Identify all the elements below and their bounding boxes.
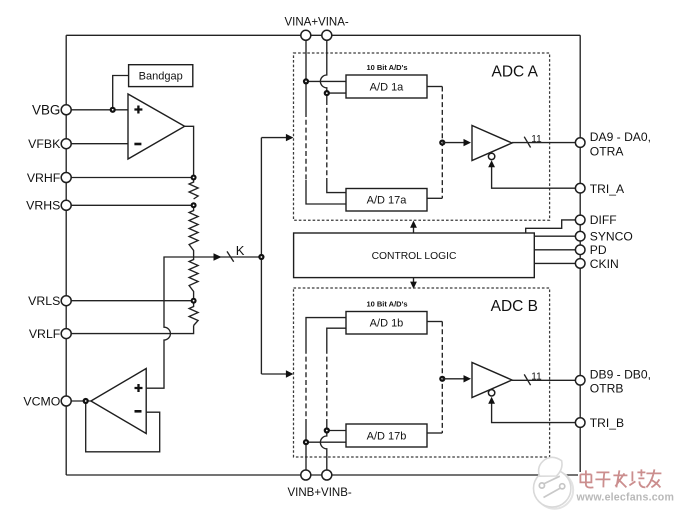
wire VCMO to op-amp U2 output	[66, 400, 91, 402]
wire bus to ADC A	[261, 137, 286, 139]
resistor ladder segment R3	[189, 257, 198, 301]
svg-text:10 Bit A/D's: 10 Bit A/D's	[366, 63, 407, 72]
resistor ladder segment R4	[189, 301, 198, 326]
svg-text:VFBK: VFBK	[28, 137, 61, 151]
wire VRHF	[66, 177, 193, 179]
op-amp U2	[91, 369, 146, 434]
wire VINA+ to A/D 1a	[306, 80, 346, 82]
arrowhead into ADC B	[286, 370, 294, 377]
wire VINB- vertical with hop	[320, 328, 346, 470]
terminal DA9-DA0/OTRA	[575, 138, 585, 148]
block A/D 1a	[346, 75, 427, 98]
svg-text:11: 11	[531, 372, 542, 383]
label K with slash	[227, 243, 245, 262]
svg-text:OTRB: OTRB	[590, 381, 624, 395]
wire right border	[579, 35, 581, 475]
terminal VRLF	[61, 329, 71, 339]
op-amp U1	[128, 94, 185, 159]
wire bandgap to VBG node	[113, 76, 129, 110]
svg-text:DIFF: DIFF	[590, 213, 617, 227]
arrowhead into buffer A	[464, 139, 472, 146]
block A/D 1b	[346, 312, 427, 335]
wire buffer B output (DB bus)	[512, 379, 576, 381]
wire CKIN	[534, 262, 575, 264]
wire VRLF (resistor bottom)	[66, 326, 193, 334]
svg-text:ADC A: ADC A	[491, 64, 538, 81]
svg-text:CKIN: CKIN	[590, 257, 619, 271]
arrowhead K tap	[214, 253, 222, 260]
node VINA- junction dot	[324, 90, 330, 96]
wire SYNCO	[534, 235, 575, 237]
terminal VBG	[61, 105, 71, 115]
wire VINA+ vertical	[306, 40, 346, 204]
arrowhead into buffer B	[464, 375, 472, 382]
terminal VINA+	[301, 30, 311, 40]
arrowhead down to ADC B	[410, 282, 417, 289]
svg-text:10 Bit A/D's: 10 Bit A/D's	[366, 300, 407, 309]
terminal TRI_A	[575, 183, 585, 193]
wire A/D 1a output	[427, 86, 442, 88]
svg-text:OTRA: OTRA	[590, 144, 625, 158]
wire dashed mux bus B	[441, 322, 443, 434]
node K bus junction dot	[258, 254, 264, 260]
svg-text:11: 11	[531, 134, 542, 145]
wire VINA- vertical with hop	[320, 40, 346, 192]
node VRLS tap dot	[191, 298, 197, 304]
terminal VINB-	[322, 470, 332, 480]
terminal DB9-DB0/OTRB	[575, 376, 585, 386]
wire K tap left leg to VCMO buffer + input	[146, 257, 193, 388]
wire top border	[66, 34, 580, 36]
tri-state buffer B	[472, 363, 512, 398]
terminal VRHS	[61, 200, 71, 210]
svg-text:TRI_B: TRI_B	[590, 416, 624, 430]
svg-text:VRLF: VRLF	[29, 327, 61, 341]
wire A/D 1b output	[427, 321, 442, 323]
svg-text:A/D 1b: A/D 1b	[370, 318, 404, 330]
wire buffer A output (DA bus)	[512, 142, 576, 144]
arrowhead up to ADC A	[410, 221, 417, 228]
block A/D 17a	[346, 189, 427, 212]
wire VINA- to A/D 1a	[327, 92, 346, 94]
wire dashed mux bus A	[441, 87, 443, 199]
block A/D 17b	[346, 424, 427, 447]
svg-text:A/D 1a: A/D 1a	[370, 82, 405, 94]
svg-text:K: K	[236, 243, 245, 258]
node VBG junction dot	[110, 107, 116, 113]
tri-state buffer A	[472, 126, 512, 161]
svg-text:PD: PD	[590, 243, 607, 257]
arrowhead into ADC A	[286, 134, 294, 141]
terminal VRHF	[61, 173, 71, 183]
node VRHF tap dot	[191, 175, 197, 181]
wire control to ADC A	[413, 227, 415, 233]
svg-text:DB9 - DB0,: DB9 - DB0,	[590, 367, 651, 381]
node VRHS tap dot	[191, 202, 197, 208]
terminal PD	[575, 245, 585, 255]
svg-text:Bandgap: Bandgap	[139, 71, 183, 83]
wire into buffer B	[442, 378, 464, 380]
node buffer B input dot	[439, 376, 445, 382]
watermark text dianzifashaoyou	[579, 468, 660, 486]
resistor ladder segment R2	[189, 205, 198, 257]
wire bus to ADC B	[261, 373, 286, 375]
wire left border	[65, 35, 67, 475]
node VINB- junction dot	[324, 427, 330, 433]
resistor ladder segment R1	[189, 178, 198, 200]
terminal CKIN	[575, 259, 585, 269]
arrowhead TRI_B enable	[488, 397, 495, 404]
svg-text:TRI_A: TRI_A	[590, 182, 625, 196]
block Bandgap	[129, 65, 193, 87]
label bus width 11 (B) with slash	[524, 372, 542, 386]
enable bubble buffer A	[488, 153, 494, 159]
wire VRHS	[66, 204, 193, 206]
svg-text:VCMO: VCMO	[23, 395, 60, 409]
wire op-amp U2 feedback loop	[86, 401, 160, 452]
enable bubble buffer B	[488, 390, 494, 396]
wire TRI_A to enable	[492, 165, 576, 188]
terminal SYNCO	[575, 231, 585, 241]
svg-text:VBG: VBG	[32, 102, 60, 117]
terminal VINB+	[301, 470, 311, 480]
wire K tap to center bus	[194, 256, 262, 258]
svg-text:VINB+VINB-: VINB+VINB-	[288, 487, 352, 499]
svg-text:www.elecfans.com: www.elecfans.com	[576, 491, 675, 503]
wire A/D 17b output	[427, 432, 442, 434]
svg-text:CONTROL LOGIC: CONTROL LOGIC	[372, 251, 457, 262]
terminal DIFF	[575, 215, 585, 225]
svg-text:ADC B: ADC B	[491, 298, 538, 315]
terminal VRLS	[61, 296, 71, 306]
node VCMO junction dot	[83, 398, 89, 404]
svg-text:SYNCO: SYNCO	[590, 230, 633, 244]
node buffer A input dot	[439, 140, 445, 146]
wire VINB+ vertical	[306, 318, 346, 470]
block ADC B dashed box	[294, 288, 550, 457]
wire VFBK input	[66, 143, 128, 145]
arrowhead TRI_A enable	[488, 160, 495, 167]
wire TRI_B to enable	[492, 402, 576, 423]
wire op-amp U1 output to resistor top	[185, 126, 194, 177]
block ADC A dashed box	[294, 53, 550, 220]
label bus width 11 (A) with slash	[524, 134, 542, 148]
svg-text:VRLS: VRLS	[28, 294, 60, 308]
wire center bus vertical	[260, 138, 262, 374]
wire A/D 17a output	[427, 197, 442, 199]
svg-text:VRHS: VRHS	[26, 199, 60, 213]
svg-text:VINA+VINA-: VINA+VINA-	[285, 17, 349, 29]
wire DIFF	[526, 220, 576, 233]
wire bottom border	[66, 474, 580, 476]
wire into buffer A	[442, 142, 464, 144]
wire VINB- to A/D 17b	[327, 430, 346, 432]
wire PD	[534, 249, 575, 251]
wire VRLS	[66, 300, 193, 302]
svg-text:A/D 17a: A/D 17a	[367, 195, 408, 207]
svg-text:A/D 17b: A/D 17b	[367, 431, 407, 443]
terminal TRI_B	[575, 418, 585, 428]
svg-text:DA9 - DA0,: DA9 - DA0,	[590, 130, 651, 144]
wire VBG input	[66, 109, 128, 111]
node VINB+ junction dot	[303, 439, 309, 445]
wire control to ADC B	[413, 278, 415, 282]
terminal VCMO	[61, 396, 71, 406]
watermark logo circle	[534, 457, 574, 508]
block CONTROL LOGIC	[294, 233, 535, 278]
terminal VFBK	[61, 139, 71, 149]
wire VINB+ to A/D 17b	[306, 441, 346, 443]
terminal VINA-	[322, 30, 332, 40]
svg-text:VRHF: VRHF	[27, 171, 61, 185]
node VINA+ junction dot	[303, 78, 309, 84]
